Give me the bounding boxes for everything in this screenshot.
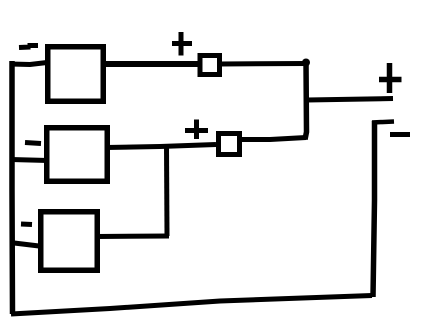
plus label fuse 2 bbox=[185, 120, 208, 140]
wire cell 3 to drop bbox=[97, 234, 169, 240]
minus label cell 2 bbox=[25, 143, 41, 144]
cell 3 box bbox=[41, 212, 98, 271]
vertical wire node bbox=[305, 62, 307, 140]
wire cell 1 to fuse 1 bbox=[103, 61, 198, 67]
wire node to plus terminal bbox=[307, 99, 393, 101]
wire bus to cell 1 bbox=[10, 63, 47, 65]
fuse F1 bbox=[200, 56, 220, 75]
plus label fuse 1 bbox=[172, 32, 192, 56]
cell 1 box bbox=[48, 47, 104, 102]
plus terminal symbol bbox=[379, 63, 402, 93]
minus label cell 1 bbox=[19, 46, 38, 48]
wire cell 2 to fuse 2 bbox=[106, 145, 216, 148]
fuse F2 bbox=[219, 134, 240, 155]
minus terminal hook bbox=[372, 122, 394, 123]
minus label cell 3 bbox=[21, 222, 32, 228]
wire bus to cell 3 bbox=[10, 243, 39, 247]
minus label terminal bbox=[390, 132, 410, 137]
minus terminal lead bbox=[373, 121, 375, 297]
left bus wire bbox=[9, 61, 15, 314]
junction node dot bbox=[302, 59, 310, 67]
wire fuse 2 to node bbox=[240, 138, 307, 140]
bottom return wire bbox=[11, 296, 372, 315]
cell 2 box bbox=[47, 128, 108, 182]
wire drop to cell 3 branch bbox=[164, 146, 170, 236]
wire fuse 1 to node bbox=[220, 61, 307, 67]
wire bus to cell 2 bbox=[11, 160, 48, 161]
